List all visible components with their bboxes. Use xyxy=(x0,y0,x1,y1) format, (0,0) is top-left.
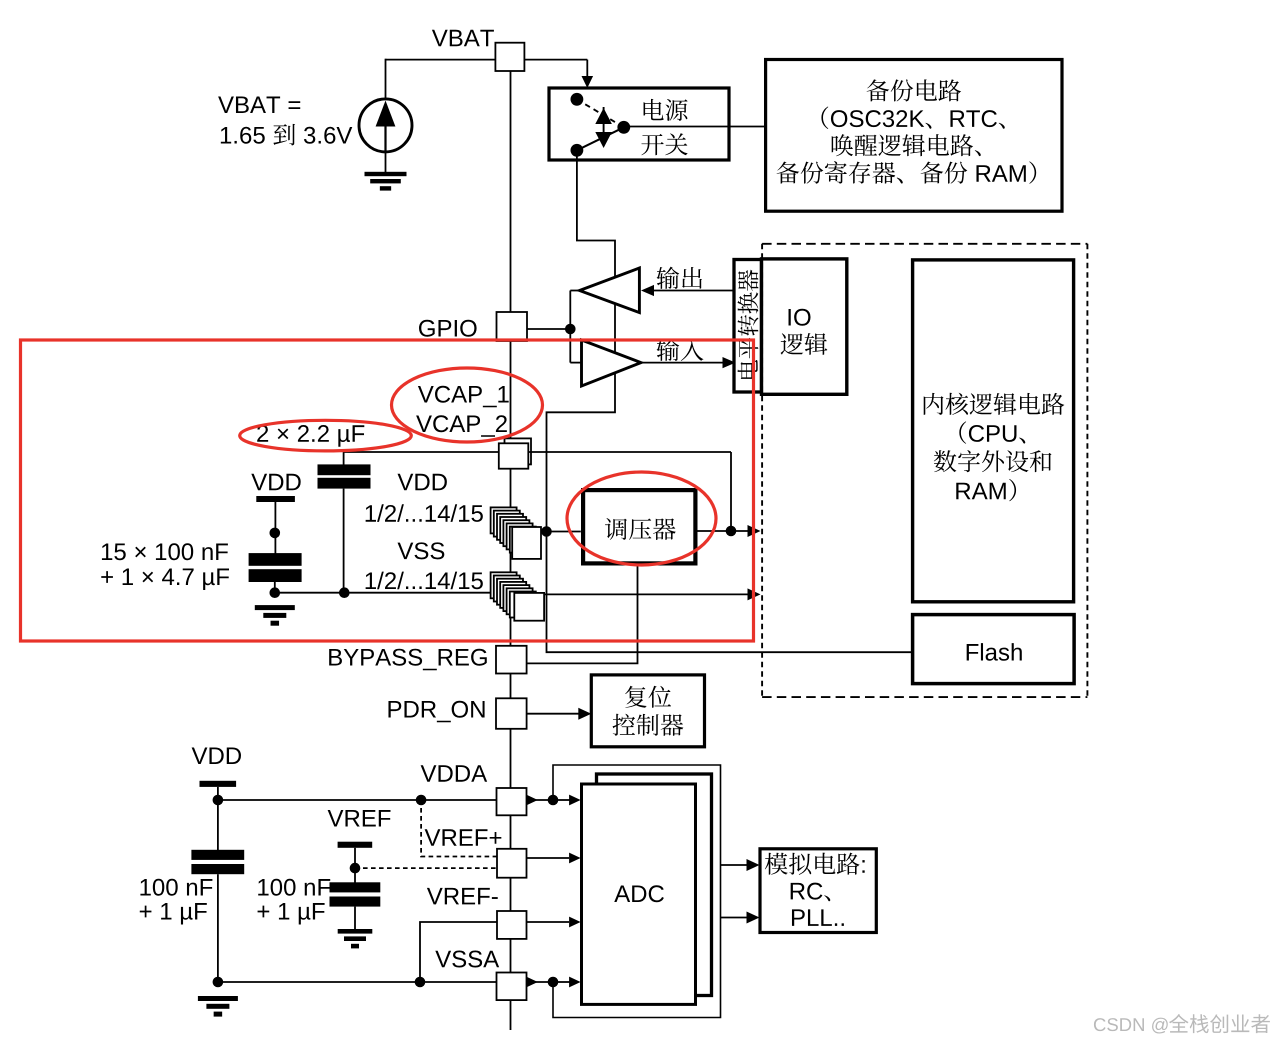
pin VBAT xyxy=(495,43,524,71)
label ADC xyxy=(614,885,630,902)
label reset controller xyxy=(625,686,647,708)
node VDD regulator junction xyxy=(541,526,552,537)
ground GND4 xyxy=(338,929,373,934)
label analog circuitry xyxy=(765,853,788,875)
wire VREF+ to ADC xyxy=(527,857,570,859)
wire regulator bypass xyxy=(527,565,638,663)
wire C2 to ground net xyxy=(274,581,276,593)
wire VDD net from switch to flash xyxy=(547,153,913,652)
label backup circuitry xyxy=(867,79,890,101)
pin VDDA xyxy=(497,788,527,815)
node VDDA ring dot xyxy=(548,795,559,806)
label Flash xyxy=(967,644,979,661)
core logic block xyxy=(913,260,1074,602)
node ground junction C1 xyxy=(339,587,350,598)
wire VREF- to ADC xyxy=(527,921,570,923)
label VCAP_1 VCAP_2 xyxy=(418,386,434,403)
wire C1 to ground net xyxy=(343,489,345,593)
wire VREF bar to C4 xyxy=(354,848,356,883)
wire main chip pin rail xyxy=(510,71,512,1030)
ground GND3 xyxy=(198,996,238,1001)
label 15 x 100 nF xyxy=(102,543,112,560)
analog circuitry block xyxy=(760,849,876,933)
capacitor C1 2x2.2uF xyxy=(318,464,371,475)
power rail VREF bar xyxy=(338,842,373,848)
wire VSS to core logic xyxy=(544,593,748,595)
node VDDA branch dot xyxy=(213,795,224,806)
wire VSSA net xyxy=(218,981,497,983)
annotation ellipse VCAP xyxy=(392,368,543,442)
label PDR_ON xyxy=(388,701,401,718)
reset controller box xyxy=(591,675,704,747)
label 100nF+1uF left xyxy=(140,879,150,896)
label GPIO xyxy=(419,320,435,337)
annotation ellipse regulator xyxy=(567,472,716,565)
node GPIO junction xyxy=(565,324,576,335)
capacitor C2 15x100nF xyxy=(249,553,302,566)
wire PDR_ON to reset controller xyxy=(527,713,579,715)
pin VDD 1..15 stack xyxy=(491,507,517,533)
wire output from level shifter xyxy=(652,290,733,292)
wire dashed VDDA to VREF+ xyxy=(421,800,497,857)
IO logic box xyxy=(762,259,847,394)
pin VCAP stacked xyxy=(505,438,532,464)
pin VREF+ xyxy=(497,849,527,878)
wire VDD pins to regulator xyxy=(541,531,581,533)
pin VSS 1..15 stack xyxy=(491,572,517,598)
pin PDR_ON xyxy=(496,698,527,729)
label input xyxy=(657,339,680,361)
ground GND1 xyxy=(365,172,407,176)
wire VBAT pin to source xyxy=(386,59,496,61)
label VREF xyxy=(328,810,344,827)
ADC shadow box xyxy=(597,774,712,996)
wire VBAT to power switch xyxy=(524,59,587,61)
core logic domain dashed box xyxy=(762,244,1087,697)
power rail VDD bar xyxy=(256,496,295,502)
buffer output driver xyxy=(580,268,640,313)
wire VCAP to C1 xyxy=(344,451,499,453)
wire VCAP to regulator xyxy=(528,451,731,453)
wire ring to analog block xyxy=(721,864,748,866)
label VBAT = 1.65 to 3.6V xyxy=(218,96,234,113)
label VREF- xyxy=(427,888,443,905)
label VDD bottom xyxy=(192,747,208,764)
node VCAP regulator junction xyxy=(726,526,737,537)
pin VREF- xyxy=(497,911,527,939)
node VDD wire dot xyxy=(270,528,281,539)
wire C4 to ground xyxy=(354,907,356,930)
wire switch to backup block xyxy=(624,126,766,128)
wire VREF dashed to VREF+ xyxy=(355,867,497,869)
wire GPIO to buffers xyxy=(527,328,570,330)
node VREF dot xyxy=(350,863,361,874)
wire arrow into switch xyxy=(582,76,594,88)
annotation ellipse 2x2.2uF xyxy=(240,420,412,451)
flash block xyxy=(913,615,1075,684)
label 2 x 2.2 uF xyxy=(257,425,268,442)
wire source to ground xyxy=(385,151,387,173)
pin VSSA xyxy=(497,973,527,1001)
label level shifter xyxy=(738,270,759,379)
buffer input receiver xyxy=(582,340,642,386)
label VBAT xyxy=(432,30,448,47)
wire VREF- to ground net xyxy=(420,922,497,982)
wire VDDA net xyxy=(218,799,497,801)
node VDDA dashed branch xyxy=(416,795,427,806)
wire C3 to ground xyxy=(217,874,219,982)
label core logic xyxy=(924,393,944,415)
capacitor C3 100nF+1uF xyxy=(191,850,244,860)
wire VDDA to ADC xyxy=(527,799,550,801)
power switch S1 box xyxy=(549,88,729,160)
label 100nF+1uF vref xyxy=(258,879,268,896)
label VSS pins xyxy=(398,543,414,560)
label VDD left xyxy=(251,474,267,491)
node VSSA ring dot xyxy=(548,977,559,988)
ground GND2 xyxy=(255,605,295,610)
label VREF+ xyxy=(425,829,441,846)
node VSSA branch dot xyxy=(213,977,224,988)
label VDD pins xyxy=(398,474,414,491)
ADC block xyxy=(582,784,696,1004)
regulator U1 box xyxy=(583,490,695,563)
pin BYPASS_REG xyxy=(496,646,527,674)
label power switch xyxy=(644,99,664,120)
node ground junction C2 xyxy=(270,587,281,598)
pin GPIO xyxy=(497,312,528,341)
label output xyxy=(657,267,680,289)
level shifter box xyxy=(734,260,762,393)
watermark CSDN xyxy=(1094,1018,1106,1031)
wire regulator output to core xyxy=(696,530,748,532)
wire VDD bar to C2 xyxy=(274,502,276,554)
power rail VDD bar 2 xyxy=(200,781,237,787)
label BYPASS_REG xyxy=(329,649,342,666)
annotation red rectangle xyxy=(21,340,754,641)
label VDDA xyxy=(421,765,437,782)
node VREF- ground junction xyxy=(415,977,426,988)
wire ground net to VSS pins xyxy=(275,592,494,594)
label regulator xyxy=(605,518,627,540)
power switch contacts xyxy=(571,93,584,106)
capacitor C4 100nF+1uF xyxy=(330,882,381,892)
wire VDD bar to VDDA net xyxy=(217,787,219,851)
voltage source B1 VBAT xyxy=(359,99,412,152)
wire input to level shifter xyxy=(641,362,723,364)
wire VSSA to ADC xyxy=(527,981,550,983)
wire analog supply ring xyxy=(553,765,721,1018)
label IO logic xyxy=(789,309,791,326)
label VSSA xyxy=(435,951,451,968)
backup circuitry block xyxy=(766,60,1062,212)
